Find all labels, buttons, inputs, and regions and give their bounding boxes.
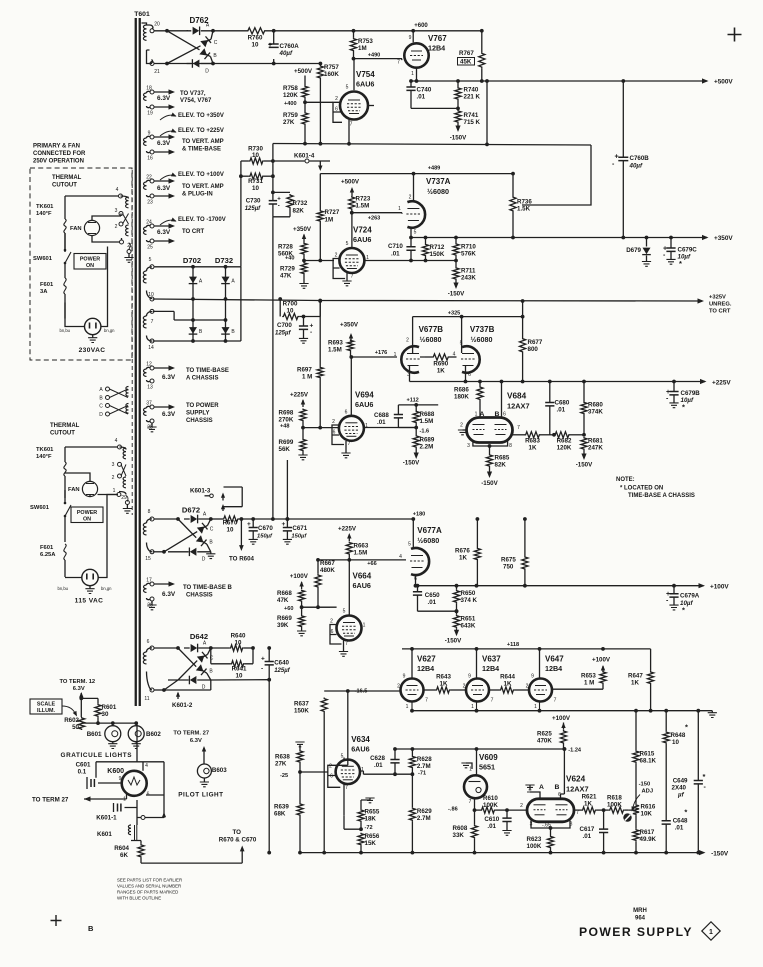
svg-text:68K: 68K — [274, 811, 286, 818]
bus +350V — [411, 237, 707, 239]
wire V624 plate line — [575, 809, 582, 811]
svg-text:R712: R712 — [430, 244, 445, 251]
wire V677A grid line — [349, 559, 406, 561]
svg-text:9: 9 — [409, 35, 412, 41]
svg-text:PILOT LIGHT: PILOT LIGHT — [178, 792, 223, 799]
svg-text:R604: R604 — [114, 845, 129, 852]
resistor R729 — [301, 262, 307, 275]
svg-text:RANGES OF PARTS MARKED: RANGES OF PARTS MARKED — [117, 890, 178, 895]
svg-text:19: 19 — [147, 111, 153, 117]
resistor R656 — [358, 833, 364, 846]
svg-text:TO TIME-BASE: TO TIME-BASE — [186, 368, 229, 374]
wire terminal 4 lower — [65, 446, 118, 448]
svg-text:TK601: TK601 — [36, 204, 54, 210]
svg-text:R727: R727 — [325, 209, 340, 216]
resistor R655 — [361, 798, 370, 809]
diode D762B — [199, 48, 210, 59]
svg-text:270K: 270K — [279, 417, 294, 424]
svg-text:C740: C740 — [417, 87, 432, 94]
resistor R758 — [304, 76, 306, 86]
svg-text:.01: .01 — [417, 94, 426, 101]
rectifier bridge D672 — [154, 518, 178, 520]
svg-text:5: 5 — [414, 230, 417, 236]
bus +225V cathode rail — [410, 381, 706, 383]
ground below R729 — [303, 275, 305, 284]
svg-text:1: 1 — [709, 929, 713, 936]
svg-text:6AU6: 6AU6 — [356, 80, 374, 89]
svg-text:R697: R697 — [297, 367, 312, 374]
svg-text:POWER: POWER — [80, 257, 100, 263]
wire R638 top ground note — [299, 744, 301, 746]
svg-text:1K: 1K — [437, 368, 445, 375]
resistor R637 — [321, 698, 327, 713]
wire V634 grid riser — [336, 691, 348, 765]
svg-text:+350V: +350V — [293, 226, 312, 233]
svg-text:K601-1: K601-1 — [96, 815, 117, 822]
svg-text:R663: R663 — [354, 543, 369, 550]
svg-text:V637: V637 — [482, 655, 501, 664]
svg-text:+112: +112 — [407, 398, 419, 404]
winding 7-14 — [143, 316, 146, 328]
svg-text:1M: 1M — [325, 217, 334, 224]
svg-text:6: 6 — [503, 412, 506, 418]
svg-text:R710: R710 — [461, 244, 476, 251]
capacitor C650 — [416, 584, 420, 588]
svg-text:6.3V: 6.3V — [157, 140, 171, 147]
capacitor C640 — [267, 646, 271, 650]
svg-text:2: 2 — [335, 96, 338, 102]
bus +325V unregulated — [280, 299, 283, 317]
resistor R693 — [347, 340, 353, 352]
svg-text:R728: R728 — [278, 244, 293, 251]
svg-text:WITH BLUE OUTLINE: WITH BLUE OUTLINE — [117, 896, 161, 901]
svg-text:470K: 470K — [537, 738, 552, 745]
svg-text:R760: R760 — [248, 35, 263, 42]
winding 8-15 — [143, 523, 146, 535]
svg-text:bn,bu: bn,bu — [60, 328, 71, 333]
svg-text:.01: .01 — [377, 419, 386, 426]
diode D672A — [191, 515, 198, 524]
rectifier bridge D762 — [154, 30, 188, 32]
svg-text:125µf: 125µf — [245, 206, 261, 212]
svg-text:ELEV. TO -1700V: ELEV. TO -1700V — [178, 217, 226, 223]
svg-text:D679: D679 — [626, 247, 641, 254]
svg-text:B603: B603 — [212, 767, 227, 774]
rectifier bridge D642 — [154, 647, 178, 649]
svg-text:.01: .01 — [675, 825, 684, 832]
wire R604 to right — [141, 848, 242, 863]
svg-text:3: 3 — [112, 462, 115, 468]
svg-text:47K: 47K — [280, 273, 292, 280]
svg-text:POWER SUPPLY: POWER SUPPLY — [579, 925, 693, 939]
svg-text:2.7M: 2.7M — [417, 815, 431, 822]
svg-text:V677A: V677A — [417, 526, 442, 535]
svg-text:C628: C628 — [370, 755, 385, 762]
svg-text:SCALE: SCALE — [37, 702, 56, 708]
primary winding lower — [123, 448, 126, 459]
svg-text:R686: R686 — [454, 387, 469, 394]
capacitor C679A — [672, 584, 676, 588]
lamp B602 — [135, 723, 137, 726]
svg-text:-.86: -.86 — [448, 807, 458, 813]
svg-text:7: 7 — [397, 60, 400, 66]
svg-text:6.3V: 6.3V — [157, 95, 171, 102]
svg-text:8: 8 — [148, 509, 151, 515]
wire +400 to V754 grid — [305, 101, 333, 103]
svg-text:C679C: C679C — [678, 247, 698, 254]
svg-text:2X40: 2X40 — [672, 785, 687, 792]
diode D702B — [189, 327, 198, 334]
resistor R710 — [454, 236, 458, 240]
capacitor C710 — [409, 259, 413, 263]
svg-text:A: A — [480, 411, 485, 418]
wire D732 output — [240, 267, 242, 341]
svg-text:+600: +600 — [414, 23, 428, 29]
power on box lower — [71, 507, 103, 523]
capacitor C679C — [669, 236, 673, 240]
diode D672C — [197, 523, 208, 534]
resistor R683 — [525, 432, 541, 438]
resistor R712 — [424, 236, 428, 240]
svg-text:5: 5 — [408, 542, 411, 548]
svg-text:GRATICULE LIGHTS: GRATICULE LIGHTS — [61, 752, 133, 759]
svg-text:R644: R644 — [500, 674, 515, 681]
svg-text:FAN: FAN — [70, 226, 82, 232]
bridge D642 cross wires — [164, 648, 211, 690]
svg-text:800: 800 — [528, 346, 539, 353]
svg-text:D672: D672 — [182, 506, 200, 515]
svg-text:R676: R676 — [455, 548, 470, 555]
resistor R663 — [346, 542, 352, 555]
svg-text:R602: R602 — [64, 717, 79, 724]
svg-text:R640: R640 — [231, 633, 246, 640]
svg-text:F601: F601 — [40, 282, 54, 288]
wire V634 screen riser — [343, 758, 345, 761]
svg-text:10: 10 — [672, 739, 679, 746]
svg-text:V754, V767: V754, V767 — [180, 98, 212, 104]
svg-text:+325V: +325V — [709, 295, 726, 301]
node +400 — [303, 100, 307, 104]
svg-text:100K: 100K — [527, 843, 542, 850]
svg-text:THERMAL: THERMAL — [50, 423, 80, 429]
diode D642B — [196, 664, 207, 675]
svg-text:27K: 27K — [283, 119, 295, 126]
svg-text:R618: R618 — [607, 795, 622, 802]
svg-text:C649: C649 — [673, 778, 688, 785]
svg-text:56K: 56K — [279, 446, 291, 453]
wire V737B plate riser — [461, 317, 463, 353]
svg-text:B: B — [555, 784, 560, 791]
svg-text:SUPPLY: SUPPLY — [186, 411, 209, 417]
diamond number 1 — [702, 922, 720, 940]
svg-text:V737B: V737B — [470, 325, 495, 334]
svg-text:180K: 180K — [454, 394, 469, 401]
svg-text:R759: R759 — [283, 112, 298, 119]
svg-text:µf: µf — [677, 792, 685, 799]
svg-text:15K: 15K — [365, 840, 377, 847]
svg-text:+100V: +100V — [552, 715, 571, 722]
svg-text:18K: 18K — [365, 816, 377, 823]
svg-text:750: 750 — [503, 564, 514, 571]
svg-text:25: 25 — [147, 245, 153, 251]
power on box upper — [74, 254, 106, 270]
wire bottom rail — [154, 63, 320, 65]
svg-text:-: - — [278, 204, 280, 210]
svg-text:3: 3 — [467, 443, 470, 449]
bus +500V — [411, 80, 707, 82]
winding 5-10 — [143, 271, 146, 283]
svg-text:+: + — [261, 656, 265, 663]
svg-text:+225V: +225V — [290, 392, 309, 399]
svg-text:C760A: C760A — [280, 43, 300, 50]
svg-text:C670: C670 — [258, 525, 273, 532]
node -1.6 — [414, 426, 418, 430]
svg-text:7: 7 — [469, 799, 472, 805]
wire V684 grid A riser — [480, 417, 482, 419]
capacitor C610 — [505, 808, 509, 812]
svg-text:R616: R616 — [641, 804, 656, 811]
resistor R760 — [247, 28, 267, 34]
resistor R623 — [547, 836, 553, 849]
capacitor C688 — [397, 405, 399, 415]
svg-text:R648: R648 — [671, 732, 686, 739]
wire V677A cathode to +100V bus — [415, 575, 417, 586]
svg-text:+100V: +100V — [290, 573, 309, 580]
svg-text:221 K: 221 K — [464, 94, 481, 101]
svg-text:+: + — [277, 197, 281, 203]
wire V684 plate risers — [501, 382, 503, 419]
ground at terminal 26 — [151, 601, 153, 605]
svg-text:1: 1 — [534, 704, 537, 710]
V684 cathode bracket — [473, 440, 508, 454]
svg-text:R639: R639 — [274, 804, 289, 811]
svg-text:230VAC: 230VAC — [79, 347, 106, 354]
wire V677B grid line +176 — [351, 356, 425, 358]
svg-text:150K: 150K — [294, 708, 309, 715]
svg-text:C650: C650 — [425, 592, 440, 599]
svg-text:SW601: SW601 — [30, 505, 50, 511]
svg-text:2: 2 — [397, 684, 400, 690]
svg-text:C648: C648 — [673, 818, 688, 825]
capacitor C760B — [622, 81, 624, 157]
svg-text:CUTOUT: CUTOUT — [52, 182, 77, 188]
svg-text:6: 6 — [345, 410, 348, 416]
resistor R681 — [581, 437, 587, 450]
capacitor C680 — [549, 382, 551, 403]
svg-text:*: * — [685, 723, 688, 732]
svg-text:PRIMARY & FAN: PRIMARY & FAN — [33, 144, 80, 150]
svg-text:A: A — [539, 784, 544, 791]
diode D672D — [189, 548, 196, 557]
plus mark bottom left — [51, 915, 62, 926]
bridge D762 cross wires — [167, 31, 213, 64]
resistor R685 — [486, 454, 492, 467]
svg-text:R741: R741 — [464, 112, 479, 119]
svg-text:2: 2 — [329, 764, 332, 770]
wire V694 plate riser — [350, 357, 352, 417]
svg-text:R643: R643 — [436, 674, 451, 681]
svg-text:1: 1 — [411, 71, 414, 77]
wire V724 plate line — [364, 260, 456, 262]
svg-text:R638: R638 — [275, 754, 290, 761]
wire D702 mid rails — [153, 311, 226, 320]
svg-text:POWER: POWER — [77, 510, 97, 516]
svg-text:R689: R689 — [420, 437, 435, 444]
svg-text:17: 17 — [146, 578, 152, 584]
bus -150V — [300, 852, 703, 854]
svg-text:C671: C671 — [292, 525, 307, 532]
wire V754 plate riser — [353, 59, 355, 91]
svg-text:V737A: V737A — [426, 177, 451, 186]
node -150V below R741 — [457, 123, 459, 130]
svg-text:R647: R647 — [628, 673, 643, 680]
svg-text:40µf: 40µf — [279, 50, 293, 57]
svg-text:½6080: ½6080 — [417, 536, 439, 545]
svg-text:R729: R729 — [280, 266, 295, 273]
wire R730 right column — [272, 144, 274, 193]
svg-text:3: 3 — [115, 208, 118, 214]
svg-text:30: 30 — [102, 711, 109, 718]
svg-text:B601: B601 — [87, 731, 102, 738]
svg-text:C679B: C679B — [681, 390, 701, 397]
wire V677A plate riser — [412, 519, 414, 549]
svg-text:5: 5 — [346, 85, 349, 91]
potentiometer R616 wiper — [623, 813, 631, 821]
ground D672 — [210, 552, 212, 554]
svg-text:+263: +263 — [368, 216, 381, 222]
svg-text:10: 10 — [252, 185, 259, 192]
wire V724 plate riser — [351, 213, 353, 248]
svg-text:ON: ON — [83, 517, 91, 523]
svg-text:10: 10 — [148, 292, 154, 298]
svg-text:R667: R667 — [320, 560, 335, 567]
svg-text:*: * — [679, 259, 682, 268]
resistor R686 — [479, 382, 481, 387]
svg-text:C610: C610 — [484, 816, 499, 823]
svg-text:-1.24: -1.24 — [568, 748, 582, 754]
ground right end cathode rail — [711, 711, 713, 713]
diode D732B — [221, 327, 230, 334]
svg-text:R625: R625 — [537, 731, 552, 738]
svg-text:37: 37 — [146, 401, 152, 407]
fan lower — [82, 481, 97, 496]
wire R730 left column — [240, 161, 242, 267]
svg-text:11: 11 — [144, 696, 149, 702]
svg-text:1: 1 — [398, 206, 401, 212]
svg-text:-150V: -150V — [711, 851, 729, 858]
scale illum box — [30, 699, 62, 714]
svg-text:C688: C688 — [374, 412, 389, 419]
svg-text:7: 7 — [345, 785, 348, 791]
svg-text:R753: R753 — [358, 38, 373, 45]
svg-text:+500V: +500V — [714, 79, 733, 86]
svg-text:6.3V: 6.3V — [162, 411, 176, 418]
svg-text:480K: 480K — [320, 567, 335, 574]
terminal 1 fan line — [117, 493, 121, 497]
svg-text:+325: +325 — [448, 311, 461, 317]
svg-text:+350V: +350V — [340, 322, 359, 329]
svg-text:7: 7 — [491, 698, 494, 704]
svg-text:UNREG.: UNREG. — [709, 302, 732, 308]
diode D762A — [193, 27, 200, 36]
svg-text:bn,bu: bn,bu — [58, 586, 69, 591]
svg-text:150µf: 150µf — [291, 534, 307, 540]
svg-text:+66: +66 — [367, 561, 377, 567]
capacitor C688 link — [397, 427, 399, 429]
V724 grid loop and ground — [333, 259, 345, 279]
svg-text:+100V: +100V — [592, 657, 611, 664]
svg-text:1.5K: 1.5K — [517, 206, 531, 213]
resistor R648 — [665, 711, 667, 732]
svg-text:-72: -72 — [365, 825, 373, 831]
svg-text:6AU6: 6AU6 — [355, 400, 373, 409]
tap crossing upper — [119, 212, 123, 216]
ground below R669 — [301, 628, 303, 632]
resistor R682 — [552, 433, 556, 437]
svg-text:R693: R693 — [328, 340, 343, 347]
wire riser to upper section — [286, 460, 288, 519]
svg-text:& PLUG-IN: & PLUG-IN — [182, 192, 213, 198]
svg-text:7: 7 — [351, 274, 354, 280]
svg-text:4: 4 — [115, 438, 118, 444]
svg-text:R682: R682 — [557, 438, 572, 445]
svg-text:20: 20 — [154, 22, 160, 28]
resistor R602 — [80, 698, 82, 717]
svg-text:C601: C601 — [76, 762, 91, 769]
svg-text:-: - — [261, 666, 263, 673]
svg-text:576K: 576K — [461, 251, 476, 258]
svg-text:+225V: +225V — [712, 380, 731, 387]
svg-text:40µf: 40µf — [629, 163, 643, 170]
node -150V below R681 — [583, 450, 585, 458]
svg-text:243K: 243K — [461, 275, 476, 282]
svg-text:R669: R669 — [277, 615, 292, 622]
svg-text:6K: 6K — [120, 852, 128, 859]
rectifier column D732 — [225, 267, 227, 341]
svg-text:3A: 3A — [40, 289, 48, 295]
svg-text:9: 9 — [531, 674, 534, 680]
svg-text:7: 7 — [517, 425, 520, 431]
svg-text:V647: V647 — [545, 655, 564, 664]
capacitor C617 — [602, 808, 606, 812]
V694 grid loop and ground — [332, 425, 344, 445]
svg-text:R628: R628 — [417, 756, 432, 763]
K600 wiring box — [96, 723, 164, 818]
svg-text:.01: .01 — [374, 762, 383, 769]
resistor R688 — [414, 403, 418, 407]
svg-text:5: 5 — [343, 609, 346, 615]
svg-text:23: 23 — [147, 200, 153, 206]
svg-text:6.25A: 6.25A — [40, 552, 56, 558]
wire D672 output rail +180 — [211, 518, 223, 520]
svg-text:K601-3: K601-3 — [190, 488, 211, 495]
svg-text:6AU6: 6AU6 — [351, 745, 369, 754]
svg-text:D702: D702 — [183, 256, 201, 265]
svg-text:-150V: -150V — [448, 291, 465, 298]
svg-text:247K: 247K — [588, 445, 603, 452]
capacitor C740 — [410, 81, 412, 87]
svg-text:13: 13 — [147, 385, 153, 391]
svg-text:-71: -71 — [418, 771, 426, 777]
svg-text:*: * — [684, 808, 687, 817]
svg-text:7: 7 — [345, 641, 348, 647]
wire V634 plate line — [360, 771, 412, 774]
diode D642C — [197, 652, 208, 663]
svg-text:R758: R758 — [283, 85, 298, 92]
svg-text:4: 4 — [399, 554, 402, 560]
svg-text:160K: 160K — [324, 71, 339, 78]
winding 24-25 heater — [144, 227, 147, 234]
